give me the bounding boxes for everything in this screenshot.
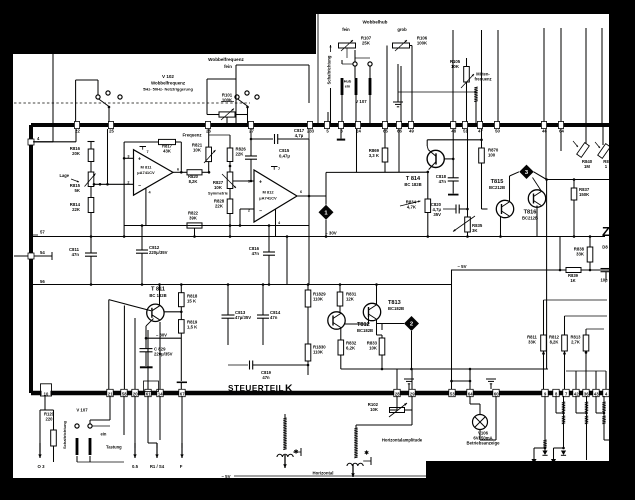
svg-text:– 5V: – 5V — [457, 264, 466, 269]
svg-text:50: 50 — [495, 128, 500, 133]
svg-text:4,7K: 4,7K — [407, 205, 417, 210]
svg-text:39K: 39K — [189, 216, 197, 221]
svg-text:10K: 10K — [193, 148, 202, 153]
svg-text:25K: 25K — [362, 41, 371, 46]
svg-text:36: 36 — [584, 391, 589, 396]
svg-text:Tastung: Tastung — [106, 445, 122, 450]
svg-text:10K: 10K — [369, 346, 378, 351]
svg-text:33K: 33K — [576, 252, 585, 257]
svg-text:2: 2 — [410, 322, 413, 328]
svg-text:22K: 22K — [72, 207, 81, 212]
svg-text:8,2K: 8,2K — [550, 340, 559, 345]
svg-text:Wobbelfrequenz: Wobbelfrequenz — [151, 81, 186, 86]
svg-text:47n: 47n — [262, 375, 270, 380]
svg-text:Wobbelfrequenz: Wobbelfrequenz — [208, 57, 244, 62]
svg-text:53: 53 — [450, 391, 455, 396]
svg-text:35V: 35V — [433, 212, 441, 217]
svg-text:BC212B: BC212B — [489, 185, 505, 190]
svg-text:42: 42 — [574, 391, 579, 396]
svg-text:BC182B: BC182B — [357, 328, 373, 333]
svg-text:−: − — [259, 209, 262, 215]
svg-text:47: 47 — [478, 128, 483, 133]
svg-text:220µ/35V: 220µ/35V — [154, 352, 173, 357]
svg-text:3K: 3K — [472, 228, 478, 233]
svg-text:BC 182B: BC 182B — [404, 182, 421, 187]
svg-text:6: 6 — [177, 168, 179, 172]
svg-text:O 3: O 3 — [38, 464, 46, 469]
svg-text:C815: C815 — [279, 148, 290, 153]
svg-text:4,7µ: 4,7µ — [295, 133, 304, 138]
svg-text:48: 48 — [451, 128, 456, 133]
svg-text:14: 14 — [158, 391, 163, 396]
svg-text:0.5: 0.5 — [132, 464, 139, 469]
svg-text:64: 64 — [559, 128, 564, 133]
svg-text:Schaltrichtung: Schaltrichtung — [62, 420, 67, 449]
svg-text:5Hz- 50Hz- Netztriggerung: 5Hz- 50Hz- Netztriggerung — [143, 87, 193, 92]
svg-text:frequenz: frequenz — [474, 77, 491, 82]
svg-text:43K: 43K — [163, 149, 171, 154]
svg-text:21: 21 — [108, 391, 113, 396]
svg-text:3,3 K: 3,3 K — [369, 153, 380, 158]
svg-text:100K: 100K — [417, 41, 428, 46]
svg-text:ein: ein — [345, 84, 351, 89]
svg-text:6: 6 — [300, 190, 302, 194]
svg-text:Lage: Lage — [59, 173, 69, 178]
svg-text:57: 57 — [40, 230, 45, 235]
svg-text:66: 66 — [397, 128, 402, 133]
svg-text:27: 27 — [249, 128, 254, 133]
svg-text:Horizontal: Horizontal — [312, 471, 333, 476]
svg-text:M 811: M 811 — [141, 164, 153, 169]
svg-text:Horizontalamplitude: Horizontalamplitude — [382, 438, 423, 443]
svg-text:47µ/35V: 47µ/35V — [235, 315, 251, 320]
svg-text:47n: 47n — [270, 315, 278, 320]
svg-text:47n: 47n — [72, 252, 80, 257]
svg-text:Z: Z — [602, 224, 610, 239]
svg-text:25: 25 — [109, 128, 114, 133]
svg-text:15 K: 15 K — [187, 299, 197, 304]
svg-text:110K: 110K — [313, 297, 324, 302]
svg-text:7: 7 — [147, 150, 149, 154]
svg-text:F: F — [180, 464, 183, 469]
svg-text:BC 182B: BC 182B — [149, 293, 166, 298]
svg-text:5K: 5K — [75, 188, 81, 193]
svg-text:BC182B: BC182B — [388, 306, 404, 311]
svg-text:Schaltrichtung: Schaltrichtung — [327, 55, 332, 84]
svg-text:Betriebsanzeige: Betriebsanzeige — [467, 441, 501, 446]
svg-text:D8: D8 — [602, 245, 608, 250]
svg-text:47n: 47n — [439, 179, 447, 184]
svg-text:20: 20 — [133, 391, 138, 396]
svg-text:1K: 1K — [570, 278, 575, 283]
svg-text:10µ: 10µ — [600, 278, 608, 283]
svg-text:T 811: T 811 — [151, 287, 165, 293]
svg-text:233: 233 — [307, 128, 315, 133]
svg-text:1M: 1M — [584, 164, 590, 169]
svg-text:fein: fein — [342, 27, 350, 32]
svg-text:12K: 12K — [346, 297, 355, 302]
svg-text:Wobbelhub: Wobbelhub — [363, 20, 388, 25]
svg-text:✱: ✱ — [364, 450, 369, 457]
svg-text:– 30V: – 30V — [325, 231, 337, 236]
svg-text:V 102: V 102 — [162, 74, 174, 79]
svg-text:M 812: M 812 — [262, 190, 274, 195]
svg-text:7: 7 — [278, 167, 280, 171]
svg-text:100: 100 — [488, 153, 496, 158]
svg-text:220µ/35V: 220µ/35V — [149, 250, 168, 255]
svg-text:V 107: V 107 — [76, 408, 88, 413]
svg-text:46: 46 — [542, 128, 547, 133]
svg-text:Frequenz: Frequenz — [182, 133, 201, 138]
svg-text:33K: 33K — [528, 340, 536, 345]
svg-text:67: 67 — [180, 391, 185, 396]
svg-text:56: 56 — [40, 279, 45, 284]
svg-text:grob: grob — [397, 27, 407, 32]
svg-text:65: 65 — [383, 128, 388, 133]
svg-text:−: − — [138, 183, 141, 189]
svg-text:R1 / S4: R1 / S4 — [150, 464, 165, 469]
svg-text:10K: 10K — [370, 407, 379, 412]
svg-text:10K: 10K — [451, 64, 460, 69]
svg-text:STEUERTEIL: STEUERTEIL — [228, 384, 284, 393]
svg-text:1,5 K: 1,5 K — [187, 325, 198, 330]
svg-text:28: 28 — [395, 391, 400, 396]
svg-text:+: + — [138, 157, 141, 163]
svg-text:22K: 22K — [215, 204, 224, 209]
svg-text:– 30V: – 30V — [156, 332, 167, 337]
svg-text:10K: 10K — [214, 185, 223, 190]
svg-text:22K: 22K — [236, 152, 245, 157]
svg-text:0,47µ: 0,47µ — [279, 154, 290, 159]
svg-text:µA741CV: µA741CV — [259, 196, 277, 201]
svg-text:61: 61 — [146, 391, 151, 396]
svg-text:2: 2 — [127, 181, 129, 185]
svg-text:2,7K: 2,7K — [571, 340, 580, 345]
svg-text:8,2K: 8,2K — [189, 179, 198, 184]
svg-text:+: + — [259, 180, 262, 186]
svg-text:60: 60 — [494, 391, 499, 396]
svg-text:Symmetrie: Symmetrie — [208, 191, 229, 196]
svg-text:ein: ein — [101, 432, 107, 437]
svg-text:64: 64 — [468, 391, 473, 396]
svg-text:V 107: V 107 — [355, 99, 367, 104]
svg-text:58: 58 — [122, 391, 127, 396]
svg-text:3: 3 — [248, 180, 250, 184]
svg-text:43: 43 — [594, 391, 599, 396]
svg-text:54: 54 — [40, 250, 45, 255]
svg-text:fein: fein — [224, 64, 232, 69]
svg-text:47n: 47n — [252, 251, 260, 256]
svg-text:29: 29 — [410, 391, 415, 396]
svg-text:µA741CV: µA741CV — [137, 170, 155, 175]
svg-text:150K: 150K — [579, 192, 590, 197]
svg-text:110K: 110K — [313, 350, 324, 355]
svg-text:49: 49 — [409, 128, 414, 133]
svg-text:10: 10 — [44, 391, 49, 396]
svg-text:6,2K: 6,2K — [346, 346, 356, 351]
svg-text:K: K — [285, 383, 293, 395]
svg-text:20K: 20K — [72, 151, 81, 156]
svg-text:220: 220 — [46, 417, 54, 422]
svg-text:BC212B: BC212B — [522, 216, 538, 221]
